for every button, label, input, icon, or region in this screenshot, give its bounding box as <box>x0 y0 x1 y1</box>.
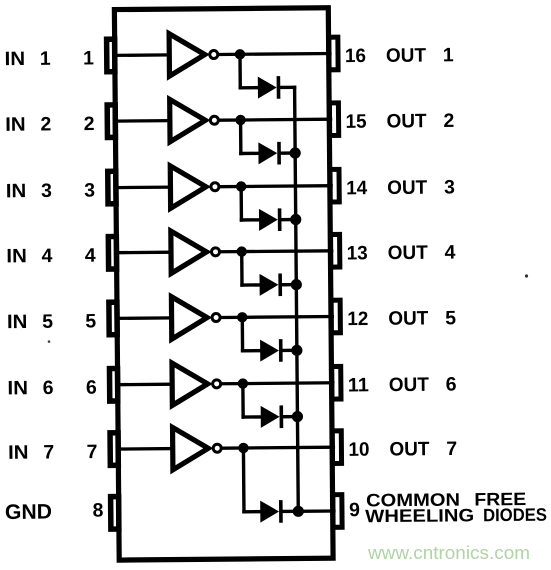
svg-text:www.cntronics.com: www.cntronics.com <box>367 542 530 563</box>
pin 13 box (right) <box>331 234 340 267</box>
wire: diode D7 anode lead <box>244 510 260 514</box>
wire: diode D5 cathode lead to common rail <box>282 349 296 353</box>
wire: input pin 1 to driver A1 <box>114 53 169 57</box>
svg-text:1: 1 <box>83 47 94 69</box>
wire: bubble A5 to output pin 12 <box>222 315 332 319</box>
svg-text:6: 6 <box>446 374 457 396</box>
diode D7 <box>260 500 279 522</box>
svg-text:DIODES: DIODES <box>483 505 547 526</box>
svg-text:7: 7 <box>446 438 457 460</box>
wire: bubble A1 to output pin 16 <box>219 52 329 56</box>
IC body outline <box>114 8 333 560</box>
wire: diode D4 cathode lead to common rail <box>282 283 296 287</box>
inverter A3 output bubble <box>211 183 219 191</box>
svg-text:6: 6 <box>86 377 97 399</box>
wire: drop from output 1 to diode D1 anode <box>238 54 242 87</box>
svg-text:4: 4 <box>85 245 96 267</box>
svg-text:OUT: OUT <box>388 242 428 264</box>
pin 7 box (left) <box>110 433 118 466</box>
svg-text:1: 1 <box>40 48 51 70</box>
driver inverter A2 <box>170 99 206 142</box>
wire: drop from output 2 to diode D2 anode <box>239 120 243 153</box>
svg-text:GND: GND <box>5 501 52 524</box>
junction node on rail at y=416.8 <box>292 411 303 422</box>
svg-text:4: 4 <box>444 242 455 264</box>
svg-text:IN: IN <box>7 311 28 333</box>
driver inverter A5 <box>171 296 207 339</box>
wire: input pin 2 to driver A2 <box>115 119 170 123</box>
wire: drop from output 3 to diode D3 anode <box>239 186 243 219</box>
diode D3 <box>259 209 278 231</box>
wire: bubble A7 to output pin 10 <box>223 446 333 450</box>
wire: diode D6 cathode lead to common rail <box>283 415 297 419</box>
svg-text:IN: IN <box>7 377 28 399</box>
inverter A2 output bubble <box>210 116 218 124</box>
wire: diode D1 cathode lead to common rail <box>280 86 294 90</box>
wire: bubble A2 to output pin 15 <box>220 118 330 122</box>
wire: input pin 6 to driver A6 <box>117 383 172 387</box>
wire: bubble A6 to output pin 11 <box>222 381 332 385</box>
svg-text:3: 3 <box>41 180 52 202</box>
inverter A1 output bubble <box>210 50 218 58</box>
inverter A7 output bubble <box>213 444 221 452</box>
svg-text:IN: IN <box>5 114 26 136</box>
wire: drop from output 7 to diode D7 anode <box>242 448 246 512</box>
wire: input pin 5 to driver A5 <box>116 316 171 320</box>
svg-text:OUT: OUT <box>387 177 427 199</box>
svg-text:8: 8 <box>92 500 103 522</box>
svg-text:IN: IN <box>6 180 27 202</box>
pin 5 box (left) <box>109 302 117 335</box>
svg-text:5: 5 <box>445 307 456 329</box>
pin 9 box (right) <box>333 495 342 528</box>
svg-text:6: 6 <box>43 377 54 399</box>
junction node on output 3 <box>236 181 246 191</box>
inverter A6 output bubble <box>213 380 221 388</box>
junction node on output 2 <box>235 115 245 125</box>
junction node on rail at y=511.5 <box>293 506 304 517</box>
svg-text:3: 3 <box>84 180 95 202</box>
svg-text:WHEELING: WHEELING <box>365 505 474 526</box>
wire: input pin 7 to driver A7 <box>117 447 172 451</box>
wire: diode D4 anode lead <box>242 283 260 287</box>
junction node on output 6 <box>238 378 248 388</box>
driver inverter A6 <box>172 363 208 406</box>
junction node on output 4 <box>236 246 246 256</box>
svg-text:5: 5 <box>85 310 96 332</box>
pin 15 box (right) <box>329 103 338 136</box>
pin 12 box (right) <box>331 300 340 333</box>
junction node on rail at y=219.7 <box>290 214 301 225</box>
svg-text:IN: IN <box>5 48 26 70</box>
svg-text:2: 2 <box>443 110 454 132</box>
speck artifact left <box>48 340 51 343</box>
svg-text:11: 11 <box>348 374 369 396</box>
svg-text:OUT: OUT <box>386 44 426 66</box>
svg-text:16: 16 <box>345 45 366 67</box>
wire: rail to pin 9 <box>298 509 334 513</box>
svg-text:15: 15 <box>345 111 366 133</box>
svg-text:IN: IN <box>6 245 27 267</box>
wire: bubble A4 to output pin 13 <box>221 249 331 253</box>
pin 8 box (left) <box>111 497 119 530</box>
wire: drop from output 6 to diode D6 anode <box>241 384 245 417</box>
diode D2 <box>258 142 277 164</box>
wire: input pin 4 to driver A4 <box>116 251 171 255</box>
svg-text:7: 7 <box>86 441 97 463</box>
junction node on output 5 <box>237 312 247 322</box>
junction node on rail at y=153.2 <box>290 147 301 158</box>
pin 3 box (left) <box>108 171 116 204</box>
wire: bubble A3 to output pin 14 <box>221 184 331 188</box>
wire: diode D5 anode lead <box>243 349 261 353</box>
wire: diode D6 anode lead <box>243 415 261 419</box>
inverter A4 output bubble <box>211 248 219 256</box>
wire: diode D2 anode lead <box>241 152 259 156</box>
pin 10 box (right) <box>332 431 341 464</box>
svg-text:13: 13 <box>347 242 368 264</box>
driver inverter A3 <box>170 166 206 209</box>
svg-text:2: 2 <box>84 113 95 135</box>
diode D1 <box>258 76 277 98</box>
pin 4 box (left) <box>108 236 116 269</box>
svg-text:14: 14 <box>346 177 367 199</box>
driver inverter A7 <box>173 427 209 470</box>
svg-text:IN: IN <box>8 442 29 464</box>
wire: diode D1 anode lead <box>240 86 258 90</box>
pin 6 box (left) <box>109 368 117 401</box>
wire: diode D3 cathode lead to common rail <box>281 218 295 222</box>
svg-text:4: 4 <box>42 245 53 267</box>
junction node on rail at y=350.5 <box>291 345 302 356</box>
inverter A5 output bubble <box>212 313 220 321</box>
svg-text:10: 10 <box>348 439 369 461</box>
svg-text:1: 1 <box>443 44 454 66</box>
svg-text:OUT: OUT <box>389 374 429 396</box>
pin 2 box (left) <box>107 105 115 138</box>
junction node on output 1 <box>235 49 245 59</box>
wire: diode D7 cathode lead to common rail <box>282 510 298 514</box>
svg-text:2: 2 <box>40 113 51 135</box>
svg-text:9: 9 <box>349 499 360 521</box>
driver inverter A4 <box>171 231 207 274</box>
diode D5 <box>260 339 279 361</box>
svg-text:12: 12 <box>347 308 368 330</box>
wire: drop from output 4 to diode D4 anode <box>240 252 244 285</box>
wire: drop from output 5 to diode D5 anode <box>241 317 245 350</box>
svg-text:OUT: OUT <box>386 110 426 132</box>
svg-text:OUT: OUT <box>388 307 428 329</box>
pin 16 box (right) <box>329 37 338 70</box>
pin 11 box (right) <box>332 366 341 399</box>
diode D6 <box>261 406 280 428</box>
common cathode rail (net COM) <box>295 87 299 511</box>
pin 14 box (right) <box>330 169 339 202</box>
junction node on rail at y=284.8 <box>291 279 302 290</box>
wire: diode D2 cathode lead to common rail <box>281 151 295 155</box>
pin 1 box (left) <box>107 39 115 72</box>
wire: input pin 3 to driver A3 <box>115 185 170 189</box>
diode D4 <box>260 274 279 296</box>
driver inverter A1 <box>169 33 205 76</box>
svg-text:3: 3 <box>444 176 455 198</box>
svg-text:7: 7 <box>43 441 54 463</box>
junction node on output 7 <box>238 443 248 453</box>
svg-text:OUT: OUT <box>389 438 429 460</box>
svg-text:5: 5 <box>42 311 53 333</box>
wire: diode D3 anode lead <box>241 218 259 222</box>
speck artifact right <box>525 274 528 277</box>
